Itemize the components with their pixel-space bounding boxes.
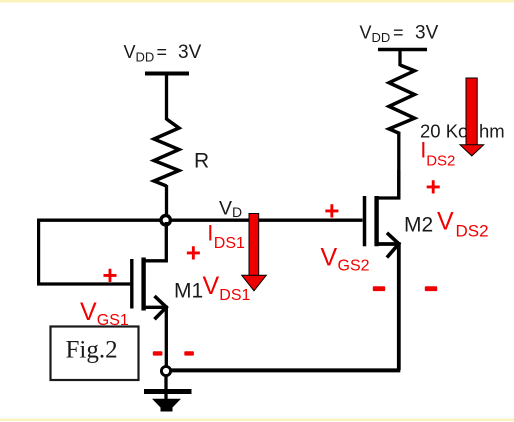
label minus left pair 1 [153,351,163,355]
svg-text:V: V [203,272,220,300]
svg-text:V: V [437,208,454,236]
label minus right pair 1 [373,286,385,291]
slide border bottom strip [0,419,514,422]
current arrow IDS1 [242,214,267,291]
svg-text:+: + [426,172,441,202]
wire feedback loop left vertical [37,219,40,286]
svg-text:hm: hm [479,121,505,142]
svg-text:DS2: DS2 [456,222,489,241]
svg-text:DS2: DS2 [426,153,455,170]
ground stub wire [164,376,167,403]
transistor M2 channel bar [374,196,378,246]
node VD junction circle [161,216,170,225]
svg-text:DS1: DS1 [219,287,250,304]
svg-text:+: + [324,196,339,226]
resistor R [154,119,179,186]
slide border top strip [0,0,514,3]
transistor M2 source arrow chevron [387,233,399,258]
label IDS1 [207,221,245,253]
label VDS2 [437,208,489,241]
ground node junction circle [161,366,170,375]
transistor M2 drain path [377,170,399,198]
power rail bar VDD2 [378,48,427,52]
transistor M1 gate bar [130,259,133,309]
label minus right pair 2 [425,286,437,291]
wire VDD2 bar to resistor R2 [398,50,401,67]
wire feedback loop to M1 gate [37,282,130,285]
ground bar [144,389,192,394]
svg-text:20 Ko: 20 Ko [420,121,468,142]
label VGS1 [80,298,129,329]
wire bottom from ground node to M2 source [171,368,401,372]
svg-text:GS2: GS2 [338,257,370,274]
svg-text:V: V [80,298,97,326]
ground triangle [152,399,181,412]
wire node VD horizontal to M2 gate [37,218,363,221]
transistor M2 gate bar [363,196,367,246]
wire VDD1 bar to resistor R [165,74,168,121]
svg-text:R: R [194,150,209,173]
transistor M1 source arrow chevron [155,296,167,319]
svg-text:+: + [186,238,201,268]
power rail bar VDD1 [145,72,189,76]
svg-text:+: + [102,260,117,290]
label VDD1 "VDD = 3V" [124,42,202,65]
transistor M1 drain path to node VD [144,222,166,261]
transistor M1 source path down to ground node [144,307,166,366]
label minus left pair 2 [184,351,194,355]
svg-text:M2: M2 [404,214,433,237]
svg-text:V: V [321,244,338,272]
label VGS2 [321,244,370,275]
transistor M1 channel bar [141,258,145,311]
transistor M2 source path down to bottom wire [377,244,399,370]
svg-text:DS1: DS1 [214,235,245,252]
label VD [219,198,242,221]
svg-text:VDD=3V: VDD=3V [360,23,439,46]
svg-text:I: I [207,221,213,246]
wire resistor R to node VD [165,185,168,220]
wire resistor R2 to M2 drain [397,132,400,199]
svg-text:M1: M1 [174,280,203,303]
Fig.2 box [51,327,139,381]
label VDS1 [203,272,251,304]
current arrow IDS2 [460,78,484,156]
label VDD2 "VDD = 3V" [360,23,439,46]
svg-text:VDD=3V: VDD=3V [124,42,202,65]
resistor R2 20 Kohm [389,65,415,134]
label IDS2 [420,138,455,170]
svg-text:Fig.2: Fig.2 [66,337,118,364]
